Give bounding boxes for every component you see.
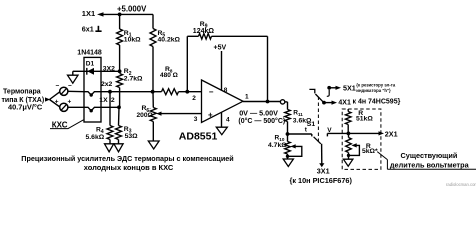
svg-text:−: − xyxy=(68,82,72,89)
svg-text:2x2: 2x2 xyxy=(101,81,113,88)
isothermal block box xyxy=(84,57,101,122)
svg-text:10kΩ: 10kΩ xyxy=(124,37,141,44)
svg-text:холодных концов в КХС: холодных концов в КХС xyxy=(84,163,174,172)
wire op-amp output xyxy=(243,101,280,103)
svg-text:51kΩ: 51kΩ xyxy=(356,116,373,123)
svg-text:53Ω: 53Ω xyxy=(125,133,139,140)
arrow to 4X1 xyxy=(324,102,334,104)
svg-text:+: + xyxy=(208,111,213,120)
resistor R11 3.6k xyxy=(287,102,289,110)
svg-text:{к 10н PIC16F676): {к 10н PIC16F676) xyxy=(290,176,353,185)
resistor R2 2.7k xyxy=(117,74,123,88)
svg-text:КХС: КХС xyxy=(52,120,68,129)
dashed box existing voltmeter divider xyxy=(342,109,381,169)
R10 wiper shorted to bottom xyxy=(290,144,295,148)
svg-text:индикатора "h"}: индикатора "h"} xyxy=(356,88,391,93)
terminal dip 1X2 xyxy=(84,107,101,111)
svg-text:(0°C — 500°C): (0°C — 500°C) xyxy=(238,117,285,125)
resistor R1 10k xyxy=(119,14,121,29)
resistor R8 480 xyxy=(153,91,162,93)
svg-text:D1: D1 xyxy=(86,60,95,67)
wire 2x2 xyxy=(101,91,153,93)
switch S1 pole A blade xyxy=(315,94,323,102)
node R4 top xyxy=(108,90,112,94)
node +5.000V junction xyxy=(118,13,122,17)
V contact of S1 xyxy=(326,133,328,136)
wire to 3X1 with arrow xyxy=(321,144,323,164)
svg-text:8: 8 xyxy=(224,87,228,94)
svg-text:200Ω: 200Ω xyxy=(137,112,154,119)
svg-text:5.6kΩ: 5.6kΩ xyxy=(86,134,105,141)
potentiometer R6 200 xyxy=(152,92,154,108)
junction circle lower xyxy=(60,103,68,111)
svg-text:+5V: +5V xyxy=(214,45,227,52)
node 1X2 / R2 / R3 xyxy=(117,105,121,109)
svg-text:6x1: 6x1 xyxy=(82,24,94,33)
svg-text:делитель вольтметра: делитель вольтметра xyxy=(390,160,470,169)
node R8 / R9 / pin2 xyxy=(185,90,189,94)
svg-text:radiolocman.com: radiolocman.com xyxy=(446,182,476,187)
svg-text:4.7kΩ: 4.7kΩ xyxy=(268,142,287,149)
svg-text:−: − xyxy=(209,88,214,97)
svg-text:5X1: 5X1 xyxy=(343,83,356,92)
svg-text:Прецизионный усилитель ЭДС тер: Прецизионный усилитель ЭДС термопары с к… xyxy=(21,154,233,163)
junction circle upper xyxy=(60,87,68,95)
wire 1X2 xyxy=(101,106,119,108)
resistor R9 124k feedback xyxy=(186,36,188,91)
callout existing voltmeter divider xyxy=(377,152,387,160)
ground R3 xyxy=(114,144,123,152)
node 3X2 / R1 / R2 xyxy=(118,69,122,73)
wire +5.000V rail with arrow toward 1X1 xyxy=(100,13,153,15)
terminal dip 2x2 xyxy=(84,92,101,95)
svg-text:Термопара: Термопара xyxy=(3,89,41,96)
svg-text:3: 3 xyxy=(194,116,198,123)
svg-text:2: 2 xyxy=(192,95,196,102)
svg-text:+: + xyxy=(68,98,72,105)
svg-text:Существующий: Существующий xyxy=(401,151,458,160)
ground op-amp pin 4 xyxy=(221,112,223,127)
switch S1 pole A crank contact xyxy=(309,89,314,93)
resistor R3 53 xyxy=(118,107,121,125)
S1 gang dashed link xyxy=(317,97,319,142)
wire t from R11/R10 node to switch xyxy=(288,133,312,135)
R6 wiper arrow xyxy=(159,113,201,115)
node divider / V / 2X1 xyxy=(347,132,351,136)
svg-text:1N4148: 1N4148 xyxy=(77,50,102,57)
wire 2X1 xyxy=(348,132,380,134)
node output / R9 xyxy=(266,100,270,104)
resistor R 51k xyxy=(347,109,349,112)
svg-text:к 4н 74HC595}: к 4н 74HC595} xyxy=(353,98,401,105)
node R5/R8/R6/2x2 junction xyxy=(151,90,155,94)
ground at D1 cathode xyxy=(73,70,84,72)
svg-text:1: 1 xyxy=(245,94,249,101)
wire rail corner down to R5 xyxy=(152,14,154,28)
ground R 5k xyxy=(343,159,353,166)
svg-text:1X1: 1X1 xyxy=(82,9,95,18)
svg-text:V: V xyxy=(327,127,332,134)
svg-text:2: 2 xyxy=(111,97,115,104)
ground R10 xyxy=(283,159,293,167)
svg-text:2X1: 2X1 xyxy=(385,129,398,138)
svg-text:0V — 5.00V: 0V — 5.00V xyxy=(239,108,278,117)
svg-text:5kΩ*: 5kΩ* xyxy=(362,148,378,155)
switch S1 pole B blade xyxy=(314,137,321,144)
resistor R5 40.2k xyxy=(150,29,156,47)
svg-text:+: + xyxy=(55,98,59,105)
svg-text:40.2kΩ: 40.2kΩ xyxy=(158,37,181,44)
contact 5X1 xyxy=(327,86,331,90)
svg-text:{к резистору эл-та: {к резистору эл-та xyxy=(356,83,396,88)
thermocouple branch wires xyxy=(50,91,61,99)
svg-text:1X: 1X xyxy=(99,97,108,104)
ground R6 xyxy=(148,141,159,149)
svg-text:S1: S1 xyxy=(307,121,316,128)
potentiometer R 5k xyxy=(346,138,352,153)
op-amp U1 AD8551 xyxy=(202,80,244,123)
thermocouple wires into block xyxy=(68,90,84,92)
svg-text:124kΩ: 124kΩ xyxy=(193,28,215,35)
wire 3X2 xyxy=(101,70,120,72)
svg-text:+5.000V: +5.000V xyxy=(117,5,147,14)
svg-text:AD8551: AD8551 xyxy=(179,130,218,142)
node R11 / R10 / t xyxy=(286,132,290,136)
node 4X1 xyxy=(322,101,326,105)
ground R4 xyxy=(105,144,114,152)
svg-text:−: − xyxy=(56,82,60,89)
svg-text:2.7kΩ: 2.7kΩ xyxy=(124,76,143,83)
svg-text:480 Ω: 480 Ω xyxy=(160,72,178,79)
potentiometer R10 4.7k xyxy=(287,134,289,142)
resistor R4 5.6k xyxy=(109,92,111,126)
svg-text:3X2: 3X2 xyxy=(103,65,115,72)
svg-text:4X1: 4X1 xyxy=(338,100,351,107)
svg-text:4: 4 xyxy=(226,116,230,123)
thermocouple apex node xyxy=(45,97,50,101)
svg-text:40.7μV/°C: 40.7μV/°C xyxy=(8,102,43,111)
test point circle xyxy=(280,100,284,104)
svg-text:3X1: 3X1 xyxy=(317,167,330,176)
